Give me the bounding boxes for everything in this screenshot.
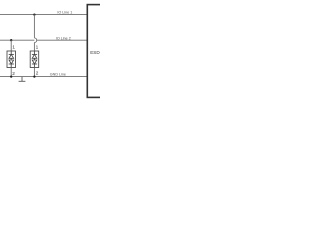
wire hop over IO Line 2	[34, 38, 36, 43]
TVS diode D1 body	[7, 51, 16, 68]
wire D2 pin 2 to GND line	[33, 68, 35, 77]
svg-text:IO Line 1: IO Line 1	[57, 11, 72, 15]
svg-text:1: 1	[12, 45, 15, 50]
wire IO Line 2	[0, 39, 87, 41]
TVS diode D2 body	[30, 51, 39, 68]
wire IO Line 1	[0, 14, 87, 16]
svg-text:2: 2	[12, 71, 15, 76]
node junction D2 on GND Line	[33, 75, 35, 77]
svg-text:2: 2	[36, 70, 39, 75]
node junction on IO Line 1	[33, 13, 35, 15]
wire vertical from IO Line 2 to D1 pin 1	[10, 40, 12, 51]
node junction D1 on GND Line	[10, 75, 12, 77]
wire GND Line	[0, 76, 87, 78]
svg-text:GND Line: GND Line	[50, 73, 66, 77]
ground symbol	[19, 77, 26, 82]
protected device U1 (ESD sensitive) box	[87, 5, 103, 98]
svg-text:ESD-S: ESD-S	[90, 50, 100, 55]
node junction on IO Line 2	[10, 39, 12, 41]
wire vertical from hop to D2 pin 1	[33, 43, 35, 52]
svg-text:1: 1	[36, 45, 39, 50]
wire D1 pin 2 to GND line	[10, 68, 12, 77]
wire vertical from IO Line 1 to hop	[33, 15, 35, 38]
